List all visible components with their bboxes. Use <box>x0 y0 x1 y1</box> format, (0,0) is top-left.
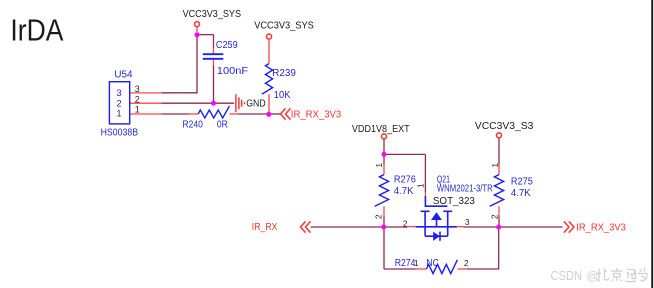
svg-text:100nF: 100nF <box>217 66 248 77</box>
svg-text:R240: R240 <box>183 119 204 130</box>
svg-text:4.7K: 4.7K <box>394 186 414 197</box>
svg-text:R239: R239 <box>272 68 296 79</box>
svg-text:10K: 10K <box>274 90 291 101</box>
svg-text:IrDA: IrDA <box>10 12 63 47</box>
svg-text:IR_RX: IR_RX <box>252 222 278 233</box>
svg-text:1: 1 <box>116 109 121 120</box>
svg-text:C259: C259 <box>216 40 238 51</box>
svg-text:VCC3V3_S3: VCC3V3_S3 <box>475 121 534 132</box>
svg-text:2: 2 <box>464 258 469 268</box>
svg-text:0R: 0R <box>217 119 228 130</box>
svg-text:CSDN: CSDN <box>551 269 583 283</box>
svg-text:3: 3 <box>465 217 470 227</box>
svg-text:3: 3 <box>135 84 140 94</box>
svg-text:IR_RX_3V3: IR_RX_3V3 <box>291 110 342 121</box>
svg-text:GND: GND <box>246 99 265 110</box>
svg-text:VDD1V8_EXT: VDD1V8_EXT <box>352 124 410 135</box>
svg-text:NC: NC <box>426 258 438 269</box>
svg-text:1: 1 <box>415 183 425 188</box>
svg-text:2: 2 <box>490 214 500 219</box>
svg-text:3: 3 <box>116 88 121 99</box>
svg-text:2: 2 <box>374 214 384 219</box>
svg-text:1: 1 <box>490 163 500 168</box>
svg-text:2: 2 <box>403 218 408 228</box>
svg-text:VCC3V3_SYS: VCC3V3_SYS <box>254 21 314 32</box>
svg-text:R276: R276 <box>394 174 416 185</box>
svg-text:4.7K: 4.7K <box>511 188 531 199</box>
svg-text:@: @ <box>587 271 599 283</box>
svg-text:IR_RX_3V3: IR_RX_3V3 <box>576 223 626 234</box>
svg-text:U54: U54 <box>114 69 133 80</box>
svg-text:1: 1 <box>135 104 140 114</box>
svg-text:SOT_323: SOT_323 <box>433 196 475 207</box>
svg-text:R274: R274 <box>395 258 416 269</box>
svg-text:2: 2 <box>135 95 140 105</box>
svg-text:HS0038B: HS0038B <box>101 128 139 139</box>
svg-text:WNM2021-3/TR: WNM2021-3/TR <box>437 184 493 195</box>
svg-text:R275: R275 <box>511 176 533 187</box>
svg-text:1: 1 <box>374 163 384 168</box>
svg-text:VCC3V3_SYS: VCC3V3_SYS <box>183 9 242 20</box>
svg-text:1: 1 <box>414 258 419 268</box>
